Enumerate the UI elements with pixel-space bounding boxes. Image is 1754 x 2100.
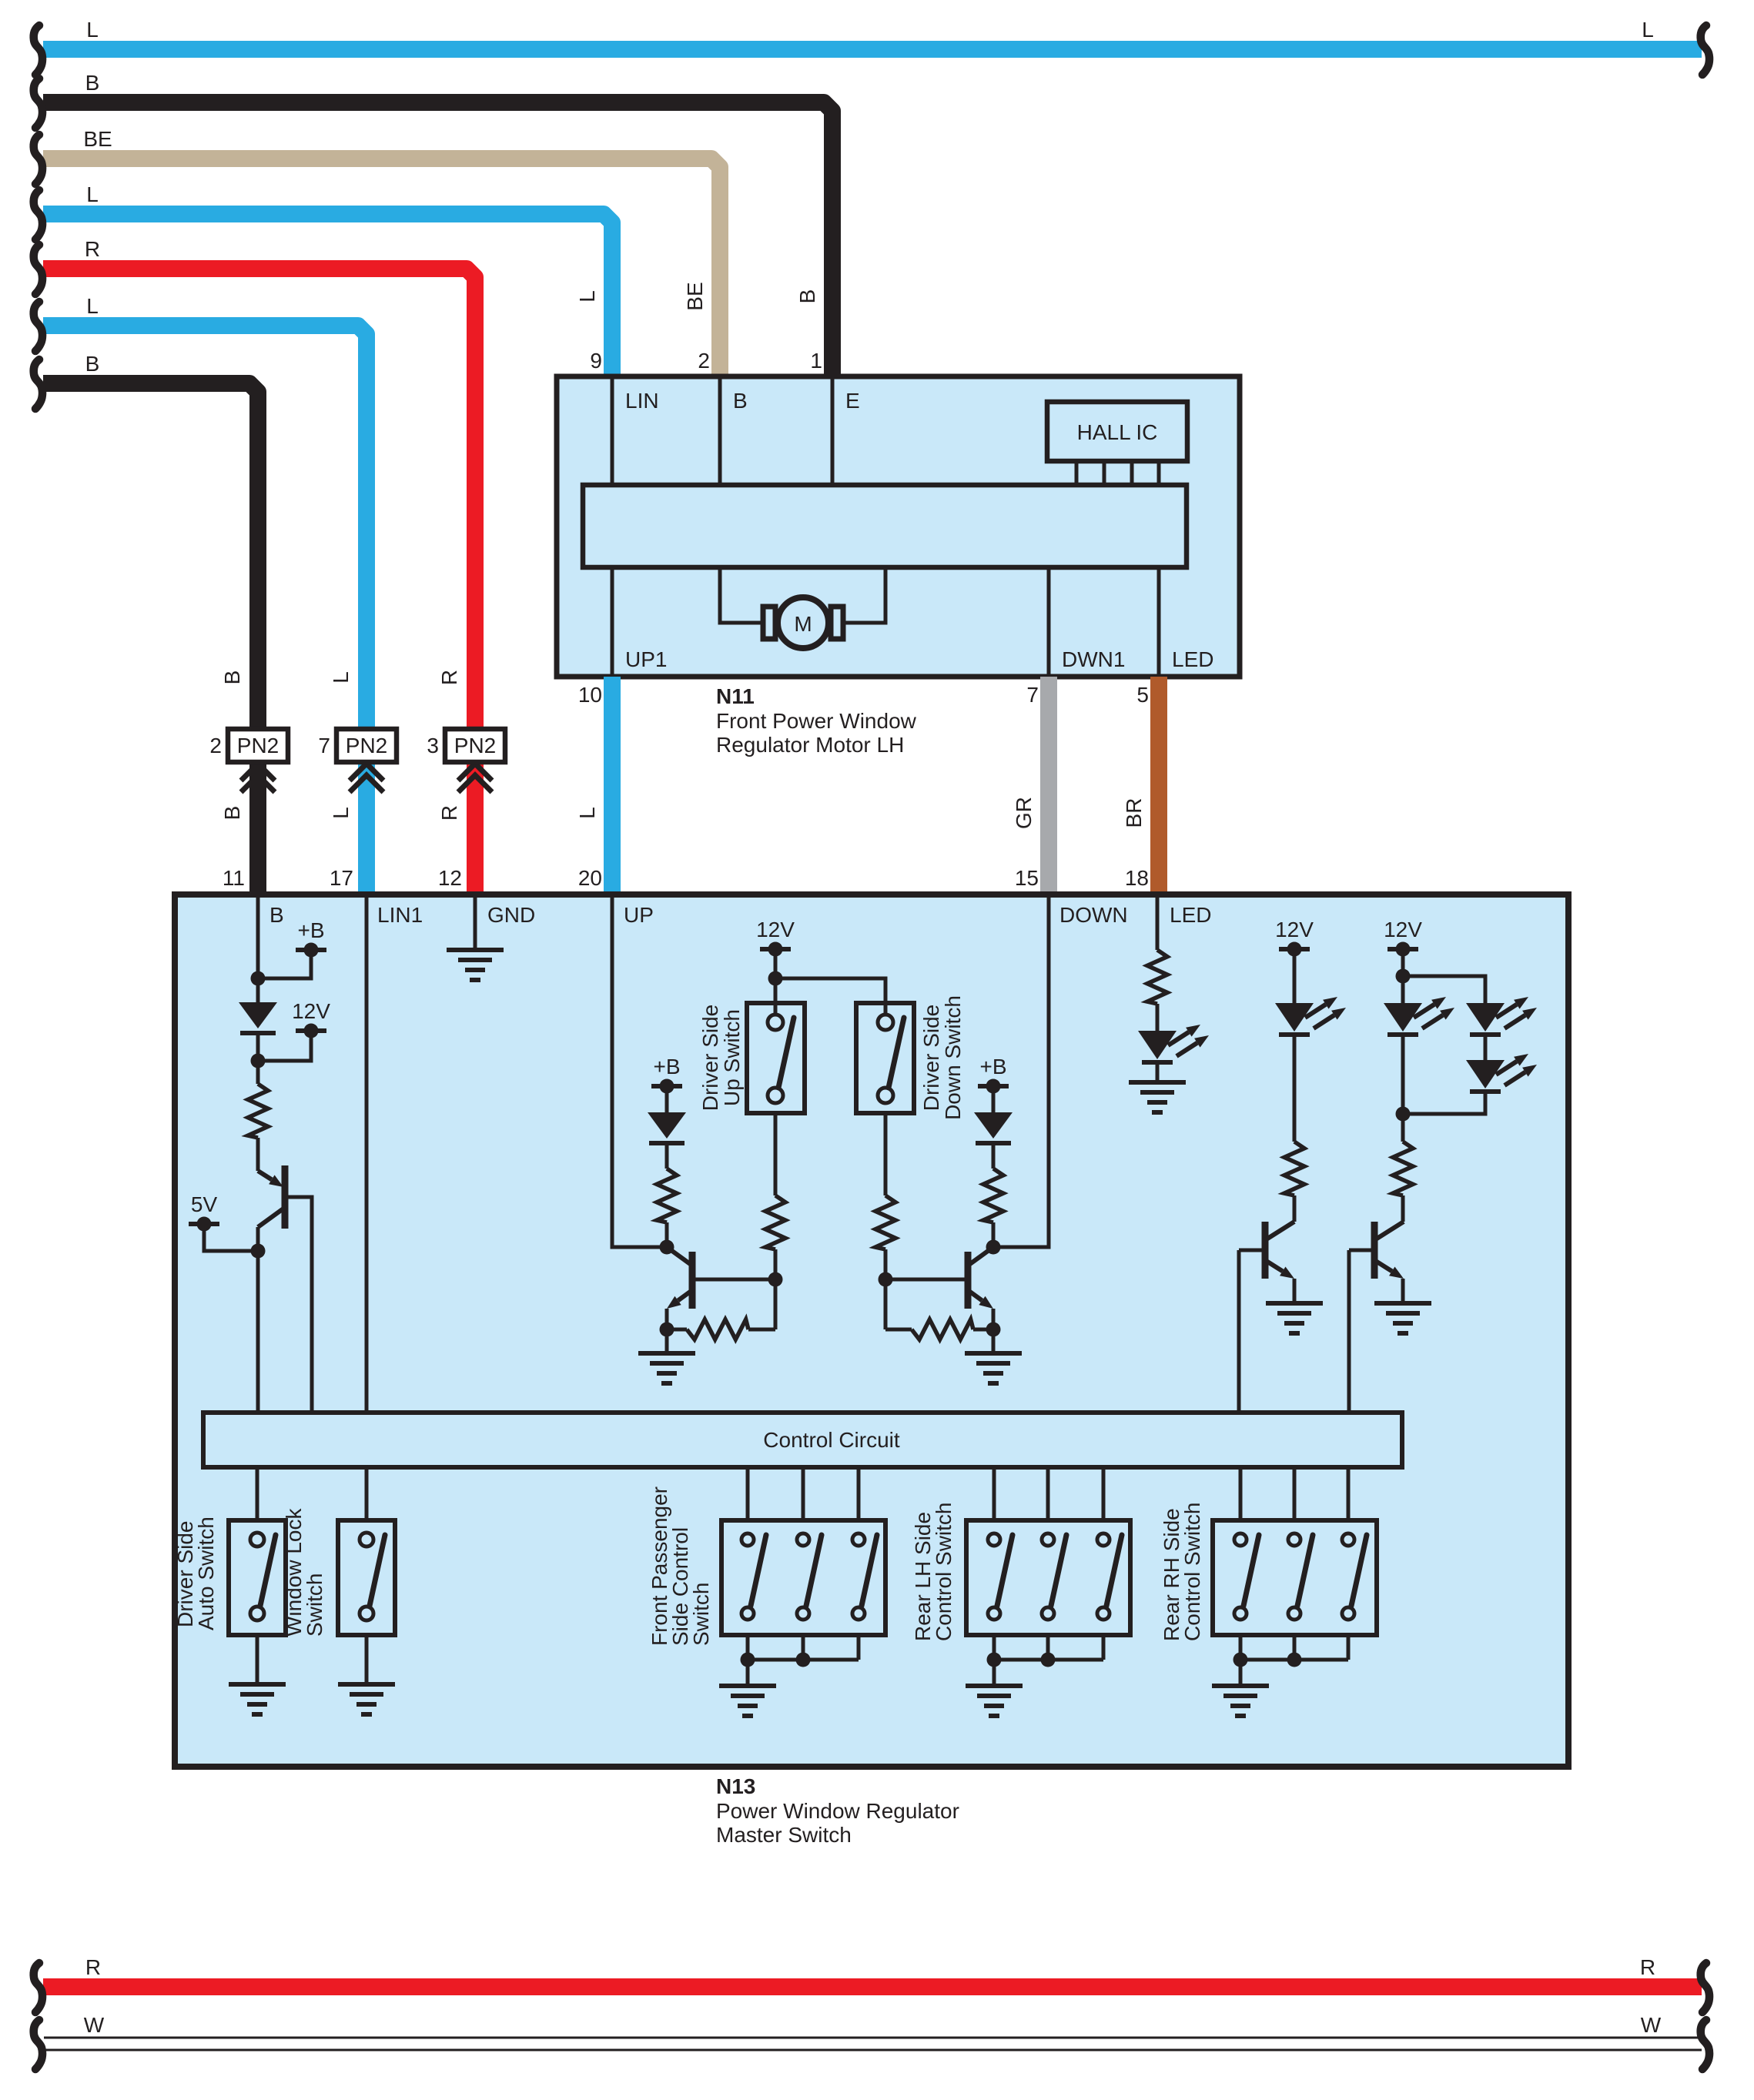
switch: Driver Side Auto Switch: [173, 1516, 286, 1635]
svg-text:15: 15: [1015, 866, 1039, 890]
svg-text:GR: GR: [1012, 797, 1036, 829]
resistor R10 (LED B): [1393, 1142, 1413, 1222]
svg-text:B: B: [85, 352, 100, 376]
LED D8 (parallel branch lower): [1403, 1054, 1537, 1114]
wire from pin 15 (DOWN) to Q3 collector node: [1000, 895, 1049, 1247]
wire resistor to transistor Q1: [256, 1138, 260, 1171]
ground (Q2 emitter): [638, 1353, 695, 1383]
resistor R3 (up base): [765, 1195, 785, 1279]
wire B (black) to N13 pin 11 B via connector PN2-2: [34, 352, 258, 895]
svg-text:L: L: [329, 807, 353, 819]
svg-text:Driver Side: Driver Side: [698, 1005, 722, 1111]
ground (Q4 emitter): [1266, 1303, 1323, 1333]
wire Q5 base to control circuit: [1347, 1250, 1351, 1413]
wire from pin 17 (LIN1) to control circuit: [365, 895, 369, 1413]
junction node LED branch bottom: [1396, 1107, 1411, 1122]
12V terminal (B section): [258, 999, 330, 1061]
+B terminal (B section): [258, 918, 326, 978]
svg-text:+B: +B: [979, 1055, 1006, 1078]
junction node diode/12V: [251, 1033, 266, 1084]
HALL IC block: [1047, 402, 1187, 461]
svg-text:L: L: [575, 807, 599, 819]
ground (Q3 emitter): [965, 1353, 1022, 1383]
5V terminal: [189, 1192, 258, 1251]
junction nodes front passenger common: [741, 1653, 811, 1667]
svg-text:GND: GND: [487, 903, 535, 927]
svg-text:DOWN: DOWN: [1059, 903, 1128, 927]
svg-text:L: L: [329, 671, 353, 684]
12V terminal (LED circuit B): [1384, 918, 1422, 1003]
svg-text:R: R: [437, 805, 461, 821]
svg-text:R: R: [437, 670, 461, 685]
wire L (blue) UP1 pin 10 to N13 UP pin 20: [575, 677, 612, 895]
wire L (blue) to N13 pin 17 LIN1 via connector PN2-7: [34, 294, 367, 895]
N11 output dividers UP1 / DWN1 / LED with labels: [612, 567, 1213, 677]
svg-text:BR: BR: [1122, 798, 1146, 828]
svg-text:LIN: LIN: [625, 389, 659, 413]
resistor R2 (up drive collector): [657, 1169, 677, 1247]
svg-text:12: 12: [438, 866, 462, 890]
svg-text:BE: BE: [83, 127, 112, 151]
N13 caption: [716, 1774, 959, 1847]
component box N13 Power Window Regulator Master Switch: [175, 895, 1568, 1767]
resistor R8 (LED pin): [1147, 950, 1167, 1031]
svg-text:Control Switch: Control Switch: [932, 1502, 956, 1641]
+B terminal and diode D2 (up drive): [648, 1055, 686, 1169]
ground (auto switch): [229, 1684, 286, 1714]
svg-text:L: L: [86, 294, 99, 318]
svg-text:Regulator Motor LH: Regulator Motor LH: [716, 733, 904, 757]
svg-text:R: R: [85, 1955, 101, 1979]
svg-text:12V: 12V: [1275, 918, 1314, 941]
svg-text:B: B: [795, 289, 819, 304]
svg-text:12V: 12V: [1384, 918, 1422, 941]
svg-text:9: 9: [590, 349, 602, 373]
junction nodes rear RH common: [1233, 1653, 1302, 1667]
HALL IC pins: [1076, 461, 1159, 485]
transistor Q2 (NPN, up): [667, 1252, 775, 1309]
svg-text:L: L: [575, 290, 599, 303]
svg-text:2: 2: [698, 349, 710, 373]
svg-text:7: 7: [1026, 683, 1039, 707]
wire window lock switch to ground: [365, 1635, 369, 1684]
ground (rear RH switch): [1212, 1686, 1269, 1716]
transistor Q3 (NPN, down): [885, 1252, 993, 1309]
wire from pin 18 (LED): [1156, 895, 1160, 950]
svg-text:PN2: PN2: [237, 734, 279, 757]
svg-text:B: B: [220, 670, 244, 685]
svg-text:17: 17: [330, 866, 353, 890]
wire GR (gray) DWN1 pin 7 to N13 DOWN pin 15: [1012, 677, 1049, 895]
LED D6 (main branch): [1384, 997, 1454, 1142]
junction node collector/5V: [251, 1244, 266, 1259]
svg-text:Switch: Switch: [689, 1583, 713, 1646]
wire W (white, bottom bus, full width): [34, 2013, 1709, 2069]
wire BR (brown) LED pin 5 to N13 LED pin 18: [1122, 677, 1159, 895]
svg-text:12V: 12V: [292, 999, 330, 1023]
svg-text:B: B: [733, 389, 748, 413]
switch: Driver Side Up Switch: [698, 1003, 805, 1113]
svg-text:Up Switch: Up Switch: [720, 1009, 744, 1106]
svg-text:M: M: [794, 612, 812, 636]
svg-text:LED: LED: [1170, 903, 1211, 927]
ground (rear LH switch): [966, 1686, 1023, 1716]
svg-text:PN2: PN2: [454, 734, 496, 757]
svg-text:UP: UP: [624, 903, 654, 927]
connector PN2 pin 7 (blue wire): [318, 729, 397, 792]
svg-text:Control Switch: Control Switch: [1180, 1502, 1204, 1641]
LED D5: [1275, 997, 1346, 1142]
node line from pin 11 (B): [256, 895, 260, 1002]
wire from pin 12 (GND): [474, 895, 477, 950]
svg-text:Down Switch: Down Switch: [941, 995, 965, 1120]
junction node LED branch top: [1396, 969, 1486, 1004]
switch: Rear LH Side Control Switch: [911, 1502, 1130, 1641]
junction node Q2 base: [768, 1272, 783, 1330]
svg-text:R: R: [85, 237, 100, 261]
transistor Q4 (NPN, LED A): [1239, 1222, 1294, 1279]
connector PN2 pin 3 (red wire): [427, 729, 505, 792]
switch: Window Lock Switch: [282, 1507, 395, 1637]
junction node Q3 collector: [968, 1240, 1001, 1266]
svg-text:B: B: [220, 806, 244, 821]
wire R (red) to N13 pin 12 GND via connector PN2-3: [34, 237, 475, 895]
wire up switch to R3: [774, 1113, 778, 1195]
svg-text:18: 18: [1125, 866, 1149, 890]
svg-text:7: 7: [318, 734, 330, 757]
+B terminal and diode D3 (down drive): [974, 1055, 1013, 1169]
resistor R5 (down drive collector): [983, 1169, 1003, 1247]
svg-text:E: E: [845, 389, 860, 413]
resistor R4 (up emitter-base): [667, 1319, 775, 1339]
12V terminal (switch supply): [756, 918, 795, 1015]
wire down switch to R6: [884, 1113, 888, 1195]
wire B (black) to N11 pin 1 E: [34, 71, 832, 376]
switch: Rear RH Side Control Switch: [1160, 1502, 1377, 1641]
svg-text:1: 1: [810, 349, 822, 373]
wire from pin 20 (UP) to Q2 collector node: [612, 895, 660, 1247]
svg-text:LED: LED: [1172, 647, 1213, 671]
junction node Q3 emitter: [986, 1309, 1001, 1337]
junction node B/+B: [251, 971, 266, 986]
svg-text:DWN1: DWN1: [1062, 647, 1125, 671]
svg-text:W: W: [1641, 2013, 1662, 2037]
wires rear RH switch commons: [1240, 1635, 1348, 1686]
diode D1 (B section): [239, 1002, 277, 1033]
svg-text:B: B: [85, 71, 100, 95]
switch: Driver Side Down Switch: [856, 995, 965, 1120]
svg-text:5: 5: [1136, 683, 1149, 707]
12V terminal (LED circuit A): [1275, 918, 1314, 1003]
N11 pin dividers LIN / B / E with labels: [612, 376, 860, 485]
wire R (red, bottom bus, full width): [34, 1955, 1709, 2012]
svg-text:Auto Switch: Auto Switch: [194, 1516, 218, 1630]
svg-text:+B: +B: [653, 1055, 680, 1078]
N11 internal circuit bar: [583, 485, 1187, 567]
svg-text:Front Power Window: Front Power Window: [716, 709, 917, 733]
resistor R9 (LED A): [1284, 1142, 1304, 1222]
ground (LED pin): [1129, 1082, 1186, 1112]
svg-text:Master Switch: Master Switch: [716, 1823, 852, 1847]
svg-text:Power Window Regulator: Power Window Regulator: [716, 1799, 959, 1823]
junction node Q2 collector: [660, 1240, 693, 1266]
resistor R6 (down base): [875, 1195, 895, 1279]
LED D7 (parallel branch upper): [1466, 997, 1537, 1060]
wires front passenger switch commons: [748, 1635, 859, 1686]
svg-text:BE: BE: [683, 282, 707, 310]
N13 pin labels B / LIN1 / GND / UP / DOWN / LED: [269, 903, 1211, 927]
control circuit block: [203, 1413, 1402, 1467]
junction node Q2 emitter: [660, 1309, 674, 1337]
wire Q5 emitter to ground: [1401, 1279, 1405, 1303]
resistor R1 (B section): [248, 1084, 268, 1138]
connector PN2 pin 2 (black wire): [209, 729, 288, 792]
ground (window lock switch): [338, 1684, 395, 1714]
wire L (blue) to N11 pin 9 LIN: [34, 182, 612, 376]
svg-text:L: L: [86, 182, 99, 206]
ground (GND pin): [447, 950, 504, 980]
svg-text:W: W: [84, 2013, 105, 2037]
motor M with brushes and wires: [720, 567, 885, 648]
wires control circuit to switches: [257, 1467, 1348, 1520]
svg-text:HALL IC: HALL IC: [1077, 420, 1158, 444]
svg-text:R: R: [1640, 1955, 1655, 1979]
wire L (blue, top bus, full width): [34, 18, 1709, 75]
wire Q1 collector to control circuit: [256, 1251, 260, 1413]
switch: Front Passenger Side Control Switch: [648, 1486, 885, 1646]
svg-text:5V: 5V: [191, 1192, 218, 1216]
junction node Q3 base: [879, 1272, 893, 1330]
svg-text:N13: N13: [716, 1774, 755, 1798]
svg-text:Switch: Switch: [303, 1573, 326, 1637]
transistor Q1 (PNP, B section): [258, 1165, 312, 1413]
wire Q3 emitter to ground: [992, 1329, 996, 1353]
svg-text:N11: N11: [716, 684, 755, 708]
junction nodes rear LH common: [987, 1653, 1056, 1667]
svg-text:2: 2: [209, 734, 222, 757]
svg-text:L: L: [1642, 18, 1654, 42]
svg-text:20: 20: [578, 866, 602, 890]
wire auto switch to ground: [256, 1635, 259, 1684]
svg-text:L: L: [86, 18, 99, 42]
svg-text:11: 11: [223, 866, 245, 890]
wire Q4 emitter to ground: [1293, 1279, 1297, 1303]
svg-text:3: 3: [427, 734, 439, 757]
ground (front passenger switch): [719, 1686, 776, 1716]
N11 caption: [716, 684, 917, 757]
svg-text:10: 10: [578, 683, 602, 707]
svg-text:+B: +B: [297, 918, 324, 942]
LED D4 (illumination): [1138, 1025, 1209, 1082]
junction node 12V to both switches: [768, 971, 886, 1016]
svg-text:PN2: PN2: [346, 734, 387, 757]
svg-text:Control Circuit: Control Circuit: [763, 1428, 900, 1452]
transistor Q5 (NPN, LED B): [1349, 1222, 1404, 1279]
wire Q2 emitter to ground: [665, 1329, 669, 1353]
wire BE (beige) to N11 pin 2 B: [34, 127, 720, 376]
svg-text:12V: 12V: [756, 918, 795, 941]
wire Q4 base to control circuit: [1237, 1250, 1241, 1413]
resistor R7 (down emitter-base): [885, 1319, 993, 1339]
svg-text:Driver Side: Driver Side: [919, 1005, 943, 1111]
svg-text:UP1: UP1: [625, 647, 667, 671]
svg-text:LIN1: LIN1: [377, 903, 423, 927]
wires rear LH switch commons: [994, 1635, 1103, 1686]
svg-text:B: B: [269, 903, 284, 927]
component box N11 Front Power Window Regulator Motor LH: [557, 376, 1240, 677]
ground (Q5 emitter): [1374, 1303, 1431, 1333]
